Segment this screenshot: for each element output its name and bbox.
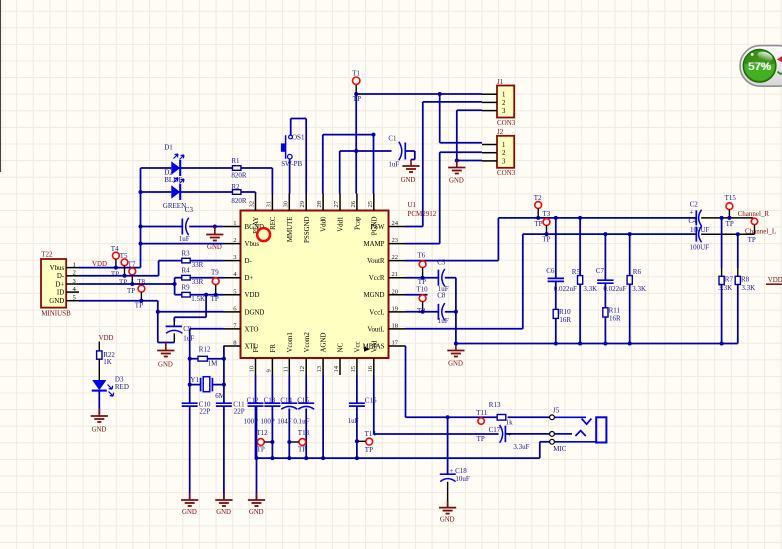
svg-text:GND: GND bbox=[449, 178, 464, 185]
U1 pin numbers bbox=[233, 200, 399, 372]
LED D2 GREEN bbox=[163, 168, 186, 210]
svg-text:Vbus: Vbus bbox=[245, 241, 260, 248]
junction D+ bracket bbox=[173, 282, 177, 286]
resistor R6 3.3K bbox=[627, 234, 646, 343]
test point T1 bbox=[352, 69, 361, 103]
wire channel R (VoutR) line bbox=[498, 217, 696, 219]
capacitor C5 1uF bbox=[437, 258, 449, 293]
svg-text:T6: T6 bbox=[417, 251, 425, 259]
U1 pin stubs bbox=[224, 194, 406, 376]
svg-text:C13: C13 bbox=[264, 397, 276, 405]
LED D3 RED bbox=[92, 376, 129, 397]
crystal Y1 6M bbox=[190, 376, 226, 400]
junction pin25 riser bbox=[372, 133, 376, 137]
wire C8 to common bbox=[445, 311, 456, 313]
svg-text:27: 27 bbox=[333, 200, 340, 207]
svg-text:NC: NC bbox=[338, 343, 345, 353]
junction T4 on Vbus bbox=[114, 266, 118, 270]
svg-text:31: 31 bbox=[265, 201, 272, 208]
wire channel L (VoutL) line bbox=[523, 233, 697, 235]
svg-text:104F: 104F bbox=[277, 417, 292, 425]
IC U1 PCM2912 USB audio codec body bbox=[241, 211, 389, 359]
wire U1 pin18 VoutL to channel L wire bbox=[406, 234, 523, 329]
svg-text:C6: C6 bbox=[546, 267, 555, 275]
svg-text:Vcom1: Vcom1 bbox=[287, 332, 294, 353]
svg-text:3.3K: 3.3K bbox=[741, 284, 755, 292]
svg-text:10: 10 bbox=[249, 365, 256, 372]
svg-text:22P: 22P bbox=[199, 408, 210, 416]
svg-text:0.1uF: 0.1uF bbox=[293, 417, 309, 425]
capacitor C12 100P bbox=[244, 375, 264, 458]
svg-text:22: 22 bbox=[392, 254, 399, 261]
capacitor C3 1uF bbox=[179, 206, 194, 243]
svg-text:2: 2 bbox=[502, 100, 506, 107]
junction C1 wire crossing T1 net bbox=[354, 149, 358, 153]
svg-text:1uF: 1uF bbox=[179, 235, 190, 243]
svg-text:3.3K: 3.3K bbox=[583, 285, 597, 293]
svg-text:C16: C16 bbox=[365, 397, 377, 405]
capacitor C11 22P bbox=[216, 400, 245, 415]
svg-text:22P: 22P bbox=[234, 408, 245, 416]
resistor R12 1M bbox=[190, 345, 224, 367]
svg-text:T22: T22 bbox=[41, 251, 53, 259]
wire U1 pin19 VccL to C8 bbox=[406, 311, 439, 313]
capacitor C2 100UF bbox=[689, 201, 709, 235]
svg-text:R11: R11 bbox=[609, 307, 621, 315]
svg-text:2: 2 bbox=[233, 237, 236, 244]
test point T12 bbox=[256, 429, 272, 453]
junction T5 on D- wire bbox=[123, 274, 127, 278]
wire D1 row bbox=[141, 167, 233, 169]
svg-text:820R: 820R bbox=[231, 172, 247, 180]
svg-text:RED: RED bbox=[115, 383, 129, 391]
svg-text:+: + bbox=[689, 209, 693, 217]
connector J5 MIC jack bbox=[550, 406, 607, 453]
svg-text:FR: FR bbox=[270, 344, 277, 353]
svg-text:23: 23 bbox=[392, 237, 399, 244]
svg-text:TP: TP bbox=[135, 302, 143, 310]
capacitor C17 3.3uF bbox=[489, 425, 530, 451]
svg-text:T7: T7 bbox=[128, 261, 136, 269]
svg-text:TP: TP bbox=[477, 435, 485, 443]
junction T3 node bbox=[545, 232, 549, 236]
svg-text:100P: 100P bbox=[260, 417, 275, 425]
test point T9 bbox=[211, 269, 220, 304]
test point T4 bbox=[111, 245, 120, 278]
svg-text:Y1: Y1 bbox=[190, 376, 199, 384]
svg-text:R6: R6 bbox=[633, 268, 642, 276]
capacitor C1 1uF bbox=[388, 134, 405, 168]
net label Channel_L bbox=[745, 228, 776, 236]
svg-text:29: 29 bbox=[299, 200, 306, 207]
svg-text:MIC: MIC bbox=[553, 445, 567, 453]
resistor R5 3.3K bbox=[572, 218, 597, 344]
wire U1 pin29 to OS1 top bbox=[291, 119, 307, 194]
wire R4 to U1 pin4 bbox=[190, 277, 223, 279]
svg-text:3: 3 bbox=[502, 158, 506, 165]
svg-text:33R: 33R bbox=[192, 278, 204, 286]
svg-text:+ C18: + C18 bbox=[449, 467, 467, 475]
junction C6 on channel R bbox=[554, 216, 558, 220]
ERC error marker red ring on U1 pin 1 bbox=[257, 228, 270, 241]
wire bottom analog-ground bus bbox=[257, 442, 550, 458]
svg-text:T2: T2 bbox=[534, 194, 542, 202]
wire C9 bottom to ground row bbox=[173, 333, 175, 342]
wire C4 to Channel_L terminal bbox=[701, 233, 754, 235]
svg-text:14: 14 bbox=[333, 365, 340, 372]
wire U1 pin7 XTO branch bbox=[190, 329, 224, 403]
wire net MAMP: U1 pin23 to J2 pin2 bbox=[406, 152, 483, 243]
svg-text:28: 28 bbox=[316, 200, 323, 207]
svg-text:32: 32 bbox=[249, 201, 256, 208]
svg-text:R2: R2 bbox=[231, 183, 240, 191]
resistor R3 33R bbox=[182, 249, 204, 269]
net label Channel_R bbox=[738, 210, 770, 218]
junction T1 node bbox=[354, 92, 442, 96]
svg-text:6M: 6M bbox=[215, 392, 226, 400]
svg-text:D1: D1 bbox=[164, 144, 173, 152]
test point T6 bbox=[417, 251, 426, 286]
svg-text:PSSGND: PSSGND bbox=[304, 216, 311, 242]
junction VDD taps bbox=[139, 190, 143, 246]
junction XTO taps bbox=[188, 357, 192, 387]
wire net PSW: U1 pin24 to J1 pin2 bbox=[406, 102, 483, 227]
junction bus left corner bbox=[255, 456, 259, 460]
svg-text:MMUTE: MMUTE bbox=[287, 217, 294, 243]
svg-text:VDD: VDD bbox=[92, 261, 107, 268]
capacitor C13 100P bbox=[260, 375, 280, 458]
svg-text:T9: T9 bbox=[211, 269, 219, 277]
svg-text:10uF: 10uF bbox=[455, 475, 470, 483]
svg-text:D-: D- bbox=[245, 258, 253, 265]
svg-text:TP: TP bbox=[534, 220, 542, 228]
svg-text:GND: GND bbox=[216, 509, 231, 516]
wire R1 to U1 pin31 bbox=[241, 168, 273, 194]
svg-text:AGND: AGND bbox=[321, 333, 328, 353]
svg-text:16: 16 bbox=[367, 365, 374, 372]
junction T6 on VccR row bbox=[421, 276, 425, 280]
capacitor C9 1uF bbox=[166, 325, 195, 343]
svg-text:C1: C1 bbox=[388, 134, 397, 142]
svg-text:0.022uF: 0.022uF bbox=[554, 285, 577, 293]
svg-text:R12: R12 bbox=[199, 345, 211, 353]
svg-text:C15: C15 bbox=[297, 397, 309, 405]
svg-text:TP: TP bbox=[726, 220, 734, 228]
svg-text:1K: 1K bbox=[103, 358, 112, 366]
svg-text:D2: D2 bbox=[164, 168, 173, 176]
svg-text:ID: ID bbox=[57, 289, 64, 296]
resistor R1 820R bbox=[231, 157, 247, 179]
svg-text:1: 1 bbox=[502, 92, 505, 99]
svg-text:26: 26 bbox=[350, 200, 357, 207]
svg-text:TP: TP bbox=[111, 270, 119, 278]
junction R5 on channel R bbox=[578, 216, 582, 220]
svg-text:D+: D+ bbox=[245, 275, 254, 282]
connector J1 CON3 bbox=[482, 78, 516, 127]
svg-text:GND: GND bbox=[440, 516, 455, 523]
svg-text:1: 1 bbox=[233, 220, 236, 227]
wire net REC-sel: J1 pin3 to J2 pin3 and ground bbox=[457, 110, 482, 160]
svg-text:Pcap: Pcap bbox=[355, 216, 362, 230]
svg-text:3.3K: 3.3K bbox=[632, 285, 646, 293]
svg-text:C5: C5 bbox=[437, 258, 446, 266]
svg-text:J1: J1 bbox=[497, 78, 504, 86]
svg-text:33R: 33R bbox=[192, 261, 204, 269]
svg-text:13: 13 bbox=[316, 365, 323, 372]
svg-text:R8: R8 bbox=[741, 276, 750, 284]
junction T7 on D+ wire bbox=[130, 282, 134, 286]
svg-text:TP: TP bbox=[298, 446, 306, 454]
wire R9 to U1 pin5 bbox=[190, 294, 223, 296]
svg-text:15: 15 bbox=[350, 365, 357, 372]
svg-text:GREEN: GREEN bbox=[163, 202, 186, 210]
capacitor C16 1uF bbox=[348, 375, 377, 458]
ground symbol near J2 bbox=[448, 161, 465, 185]
svg-text:R5: R5 bbox=[572, 268, 581, 276]
svg-text:VccR: VccR bbox=[369, 275, 385, 282]
resistor R9 1.5K bbox=[182, 283, 206, 303]
svg-text:GND: GND bbox=[49, 298, 64, 305]
svg-text:T12: T12 bbox=[256, 429, 268, 437]
svg-text:CON3: CON3 bbox=[497, 119, 516, 127]
wire VDD elbow to C9 top bbox=[174, 295, 206, 327]
capacitor C7 0.022uF bbox=[596, 234, 627, 308]
svg-text:TP: TP bbox=[365, 446, 373, 454]
wire C5 to common bbox=[445, 278, 456, 344]
junction C8 node bbox=[454, 310, 458, 314]
svg-text:TP: TP bbox=[257, 446, 265, 454]
power port VDD for LED D3 bbox=[99, 335, 114, 351]
junction bus2 taps bbox=[454, 342, 724, 346]
svg-text:GND: GND bbox=[92, 427, 107, 434]
svg-text:17: 17 bbox=[392, 339, 399, 346]
svg-text:C7: C7 bbox=[596, 267, 605, 275]
svg-text:R7: R7 bbox=[725, 276, 734, 284]
svg-text:VoutR: VoutR bbox=[367, 258, 385, 265]
test point T15 bbox=[725, 194, 737, 228]
test point T11 bbox=[476, 409, 488, 443]
wire U1 pin16 down and right to C17 row bbox=[374, 375, 499, 434]
svg-text:R13: R13 bbox=[489, 401, 501, 409]
wire C17 to jack ring bbox=[505, 433, 549, 435]
wire analog common bus bbox=[456, 343, 738, 345]
test point T3 bbox=[542, 210, 550, 243]
svg-text:T10: T10 bbox=[416, 286, 428, 294]
junction R6 on channel L bbox=[628, 232, 632, 236]
svg-text:Vcom2: Vcom2 bbox=[304, 332, 311, 353]
junction T10 on VccL row bbox=[421, 310, 425, 314]
svg-text:FC: FC bbox=[253, 344, 260, 353]
svg-text:TP: TP bbox=[127, 287, 135, 295]
test point Channel pad bbox=[748, 218, 758, 244]
svg-text:57%: 57% bbox=[748, 61, 771, 73]
junction T9 on VDD row bbox=[214, 293, 218, 297]
svg-text:16R: 16R bbox=[559, 316, 571, 324]
junction C18 tap bbox=[446, 415, 450, 419]
ground symbol under C11 bbox=[215, 493, 232, 516]
wire U1 pin17 MBIAS to R13 row bbox=[406, 346, 498, 417]
svg-text:OS1: OS1 bbox=[292, 133, 305, 141]
capacitor C8 1uF bbox=[437, 292, 449, 326]
junction T14 on C16 stem bbox=[355, 439, 359, 443]
connector J2 CON3 bbox=[482, 128, 516, 177]
resistor R13 1k bbox=[489, 401, 513, 427]
svg-text:GND: GND bbox=[182, 509, 197, 516]
svg-text:1uF: 1uF bbox=[388, 160, 399, 168]
svg-text:2: 2 bbox=[73, 270, 76, 277]
svg-text:C3: C3 bbox=[185, 206, 194, 214]
svg-text:T5: T5 bbox=[120, 252, 128, 260]
junction C3 ground tap bbox=[213, 225, 217, 229]
svg-text:MGND: MGND bbox=[363, 292, 384, 299]
svg-text:T3: T3 bbox=[542, 210, 550, 218]
svg-text:DGND: DGND bbox=[245, 309, 265, 316]
svg-text:MAMP: MAMP bbox=[363, 241, 384, 248]
svg-text:U1: U1 bbox=[408, 201, 417, 209]
svg-text:16R: 16R bbox=[609, 315, 621, 323]
junction R8 on channel L bbox=[736, 232, 740, 236]
svg-text:T4: T4 bbox=[111, 245, 119, 253]
LED D1 BLUE bbox=[164, 144, 184, 185]
svg-text:100UF: 100UF bbox=[690, 244, 710, 252]
svg-text:1.5K: 1.5K bbox=[191, 295, 205, 303]
svg-text:11: 11 bbox=[282, 366, 289, 372]
junction C9 elbow on VDD row bbox=[204, 293, 208, 297]
svg-text:R4: R4 bbox=[182, 266, 191, 274]
svg-text:VoutL: VoutL bbox=[367, 326, 384, 333]
wire U1 pin28 to pin25 bbox=[323, 135, 374, 194]
svg-text:GND: GND bbox=[158, 362, 173, 369]
svg-text:T15: T15 bbox=[725, 194, 737, 202]
push-button switch OS1 SW-PB bbox=[281, 133, 305, 168]
svg-text:GND: GND bbox=[249, 509, 264, 516]
ground symbol under D3 bbox=[91, 408, 108, 434]
svg-text:REC: REC bbox=[270, 216, 277, 230]
svg-text:MINIUSB: MINIUSB bbox=[41, 310, 71, 318]
ground symbol near C3 bbox=[206, 227, 223, 252]
svg-text:J2: J2 bbox=[497, 128, 504, 136]
test point T5 bbox=[119, 252, 128, 287]
junction T15 node bbox=[727, 216, 731, 220]
svg-text:2: 2 bbox=[502, 150, 506, 157]
wire C3 row to U1 pin1 bbox=[141, 226, 224, 228]
svg-text:24: 24 bbox=[392, 220, 399, 227]
svg-text:T1: T1 bbox=[352, 69, 360, 77]
svg-text:CON3: CON3 bbox=[497, 169, 516, 177]
wire R2 to U1 pin32 bbox=[241, 192, 256, 194]
junction R7 on channel R bbox=[720, 216, 724, 220]
svg-text:D+: D+ bbox=[55, 281, 64, 288]
svg-text:3.3uF: 3.3uF bbox=[513, 443, 529, 451]
capacitor C4 100UF bbox=[688, 217, 709, 251]
svg-text:VccL: VccL bbox=[369, 309, 384, 316]
svg-text:Vbus: Vbus bbox=[50, 265, 65, 272]
svg-text:TP: TP bbox=[119, 279, 127, 287]
svg-text:PGND: PGND bbox=[371, 216, 378, 235]
svg-text:1uF: 1uF bbox=[438, 317, 449, 325]
junction T12 on C13 stem bbox=[270, 440, 274, 444]
svg-text:T13: T13 bbox=[298, 429, 310, 437]
capacitor C15 0.1uF bbox=[293, 375, 314, 458]
junction XTI taps bbox=[222, 357, 226, 387]
svg-text:C2: C2 bbox=[690, 201, 699, 209]
svg-text:Vcc: Vcc bbox=[355, 341, 362, 352]
svg-text:Channel_R: Channel_R bbox=[738, 210, 770, 218]
svg-text:1: 1 bbox=[73, 261, 76, 268]
svg-text:R9: R9 bbox=[182, 283, 191, 291]
svg-text:GND: GND bbox=[401, 177, 416, 184]
svg-text:Vdd1: Vdd1 bbox=[338, 216, 345, 232]
wire U1 pin21 VccR to C5 bbox=[406, 277, 439, 279]
svg-text:D-: D- bbox=[57, 273, 65, 280]
svg-text:C12: C12 bbox=[247, 397, 259, 405]
svg-text:0.022uF: 0.022uF bbox=[603, 285, 626, 293]
junction bus taps bbox=[270, 456, 359, 460]
junction J2 pin3 node bbox=[455, 159, 459, 163]
svg-text:1: 1 bbox=[502, 142, 505, 149]
wire net PSEL: T1 to J1 pin1 / J2 pin1 / U1 pin26 bbox=[356, 94, 482, 194]
capacitor C18 10uF bbox=[440, 467, 470, 483]
U1 pin names bbox=[245, 216, 385, 353]
svg-text:1uF: 1uF bbox=[348, 417, 359, 425]
svg-text:Vdd: Vdd bbox=[371, 340, 378, 352]
wire C1 to ground bbox=[405, 151, 415, 160]
resistor R10 16R bbox=[553, 308, 571, 343]
svg-text:12: 12 bbox=[299, 366, 306, 373]
test point T14 bbox=[357, 430, 376, 454]
wire U1 pin27 to C1 bbox=[340, 151, 392, 194]
wire U1 pin13 AGND to bus bbox=[322, 375, 324, 458]
svg-text:TP: TP bbox=[542, 236, 550, 244]
junction T8 on GND wire bbox=[139, 299, 143, 303]
capacitor C6 0.022uF bbox=[546, 218, 577, 310]
svg-text:SW-PB: SW-PB bbox=[281, 160, 302, 168]
svg-text:J5: J5 bbox=[553, 406, 560, 414]
wire R13 to jack tip bbox=[508, 416, 550, 418]
svg-text:3: 3 bbox=[502, 108, 506, 115]
wire U1 pin30 to OS1 bottom bbox=[289, 160, 291, 194]
svg-text:C17: C17 bbox=[489, 426, 501, 434]
test point T13 bbox=[289, 429, 309, 453]
test point T2 bbox=[534, 194, 543, 228]
svg-text:1k: 1k bbox=[506, 419, 513, 427]
wire U1 pin2 to VDD rail bbox=[141, 243, 224, 245]
svg-text:R3: R3 bbox=[182, 249, 191, 257]
wire D2 row bbox=[141, 191, 233, 193]
ground symbol near C9 bbox=[157, 343, 174, 369]
svg-text:1M: 1M bbox=[208, 359, 219, 367]
net label VDD on Vbus wire bbox=[92, 261, 107, 268]
svg-text:XTO: XTO bbox=[245, 326, 259, 333]
junction T2 node bbox=[536, 216, 540, 220]
svg-text:820R: 820R bbox=[231, 197, 247, 205]
svg-text:R10: R10 bbox=[559, 308, 571, 316]
test point T10 bbox=[416, 286, 428, 315]
wire C12 stem to third ground bbox=[256, 406, 258, 499]
junction C7 on channel L bbox=[603, 232, 607, 236]
wire VDD vertical from LEDs to USB Vbus bbox=[79, 168, 141, 268]
test point T7 bbox=[127, 261, 136, 296]
connector T22 MINIUSB bbox=[41, 251, 79, 318]
svg-text:TP: TP bbox=[748, 236, 756, 244]
wire USB D- to R3 to U1 pin3 bbox=[79, 261, 224, 276]
wire C11 to ground bbox=[223, 406, 225, 499]
wire U1 pin20 MGND bbox=[406, 294, 428, 296]
capacitor C14 104 bbox=[277, 375, 297, 458]
U1 designator bbox=[408, 201, 437, 218]
wire D3 to ground bbox=[98, 391, 100, 415]
svg-text:GND: GND bbox=[207, 244, 222, 251]
